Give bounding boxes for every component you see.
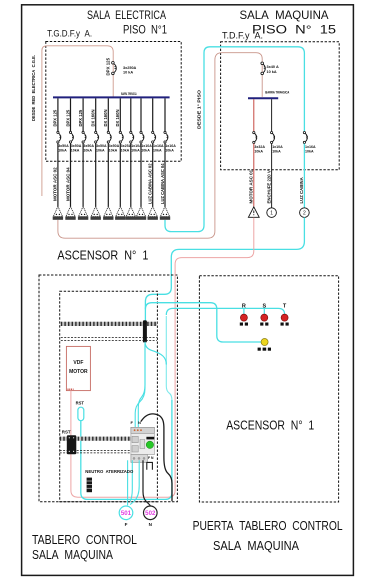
VDF MOTOR drive box — [66, 346, 90, 390]
svg-text:10 kA: 10 kA — [123, 70, 133, 74]
svg-text:MOTOR ASC 01: MOTOR ASC 01 — [249, 169, 254, 203]
svg-text:VDF: VDF — [73, 360, 83, 366]
breaker 3x25A feeder 6 — [119, 131, 121, 133]
svg-text:T.G.D.F.y A.: T.G.D.F.y A. — [47, 28, 92, 38]
svg-text:PISO N°1: PISO N°1 — [123, 22, 167, 36]
svg-text:10kA: 10kA — [153, 148, 162, 152]
wire feeder 5 down — [107, 143, 109, 206]
svg-text:PISO N° 15: PISO N° 15 — [252, 22, 336, 36]
disconnect switch on rail — [143, 320, 147, 342]
wire feeder 3 down — [82, 143, 84, 206]
wire to 501 (cyan) — [127, 460, 129, 505]
RST contactor block — [67, 435, 77, 454]
svg-text:3x50A: 3x50A — [96, 144, 107, 148]
svg-text:10kA: 10kA — [96, 148, 105, 152]
svg-text:501: 501 — [121, 511, 132, 517]
breaker 3x50A feeder 5 — [107, 131, 109, 133]
svg-text:ENCHUFE 220 V: ENCHUFE 220 V — [266, 170, 271, 203]
svg-text:LUZ CABINA: LUZ CABINA — [299, 177, 304, 203]
svg-text:F: F — [125, 522, 128, 527]
RST sensor pill (cyan) — [78, 407, 84, 421]
wire switch to contactor N (cyan) — [135, 344, 145, 428]
rail bus (bottom) — [60, 437, 131, 441]
svg-text:SALA MAQUINA: SALA MAQUINA — [240, 8, 329, 22]
svg-text:3x50A: 3x50A — [71, 144, 82, 148]
svg-text:DX 160N: DX 160N — [91, 110, 96, 127]
puerta tablero box (dashed) — [199, 276, 338, 502]
contactor black bar — [146, 437, 154, 440]
ground cable symbol feeder 7 — [126, 206, 135, 216]
svg-text:3x50A: 3x50A — [109, 144, 120, 148]
wire feeder 2 down — [70, 143, 72, 206]
svg-text:T: T — [283, 304, 287, 310]
tablero control outer box (dashed) — [39, 275, 177, 502]
svg-text:10kA: 10kA — [254, 149, 263, 153]
svg-text:F N: F N — [148, 456, 154, 460]
svg-text:S: S — [262, 304, 266, 310]
wire to 502 (black) — [143, 460, 150, 506]
ground cable symbol feeder 9 — [148, 206, 157, 216]
neutro ground bar — [87, 478, 92, 493]
feeder line 2 — [70, 98, 72, 131]
wire feeder 8 down — [140, 143, 142, 206]
feeder line 8 — [140, 98, 142, 131]
svg-text:1: 1 — [270, 211, 273, 217]
wire feeder 10 down — [164, 143, 166, 206]
svg-text:TABLERO CONTROL: TABLERO CONTROL — [32, 532, 137, 547]
wire pill to rail strip (cyan) — [81, 400, 172, 499]
svg-text:10kA: 10kA — [165, 148, 174, 152]
svg-text:LUZ CABINA ASC 02: LUZ CABINA ASC 02 — [148, 163, 153, 204]
svg-text:1x16A: 1x16A — [305, 145, 316, 149]
breaker 3x50A feeder 3 — [82, 131, 84, 133]
breaker 1x16A feeder 9 — [152, 131, 154, 133]
svg-text:BARRA TRIFASICA: BARRA TRIFASICA — [121, 92, 137, 96]
outlet circle 1 — [267, 208, 277, 218]
terminal rail bus (top) — [61, 322, 157, 326]
breaker 1x10A feeder 8 — [140, 131, 142, 133]
pilot lamp yellow — [261, 339, 268, 346]
svg-text:RST: RST — [76, 400, 85, 405]
wire luz cabina (cyan) part3 down to tablero — [145, 217, 304, 320]
breaker 1x10A enchufe — [271, 132, 273, 134]
ground cable symbol feeder 1 — [53, 206, 62, 216]
breaker 3x32A motor — [253, 132, 255, 134]
wire feeder 1 down — [57, 143, 59, 206]
contactor bottom terminals — [131, 454, 147, 462]
ground cable symbol feeder 8 — [136, 206, 145, 216]
breaker 3x50A feeder 2 — [69, 131, 71, 133]
svg-text:MOTOR ASC 04: MOTOR ASC 04 — [65, 167, 70, 201]
svg-text:1x16A: 1x16A — [165, 144, 176, 148]
svg-text:10kA: 10kA — [121, 148, 130, 152]
ground cable symbol feeder 5 — [104, 206, 113, 216]
svg-text:N: N — [149, 522, 153, 527]
svg-text:SALA ELECTRICA: SALA ELECTRICA — [87, 8, 166, 22]
green run button — [146, 441, 153, 448]
delta symbol motor — [248, 207, 259, 218]
wire feeder 4 down — [95, 143, 97, 206]
svg-text:DX 160N: DX 160N — [115, 109, 120, 126]
svg-text:T.D.F.y A.: T.D.F.y A. — [222, 30, 263, 40]
feeder line 10 — [164, 98, 166, 131]
double dashed rail (bottom) — [60, 449, 131, 451]
wire luz cabina feed (cyan) part1 — [165, 47, 304, 232]
wire motor feed floor1 to floor15 (salmon) — [58, 53, 262, 239]
wire luz cabina (cyan) part2 — [303, 144, 305, 208]
svg-text:3x32A: 3x32A — [254, 145, 265, 149]
bus bar BARRA TRIFASICA (left) — [53, 96, 170, 98]
svg-text:SALA MAQUINA: SALA MAQUINA — [32, 547, 113, 562]
svg-text:2: 2 — [303, 211, 306, 217]
main breaker DPX 125 3x250A — [112, 62, 115, 65]
wire lamps feed (light cyan) — [166, 316, 172, 400]
svg-text:3x50A: 3x50A — [83, 144, 94, 148]
svg-text:F: F — [130, 420, 133, 425]
wire feeder 7 down — [130, 143, 132, 206]
luz circle 2 — [300, 208, 310, 218]
svg-text:PUERTA TABLERO CONTROL: PUERTA TABLERO CONTROL — [193, 518, 343, 533]
feeder line 1 — [57, 98, 59, 131]
svg-text:ASCENSOR N° 1: ASCENSOR N° 1 — [57, 249, 148, 263]
ground cable symbol feeder 4 — [91, 206, 100, 216]
wire feeder 9 down — [152, 143, 154, 206]
svg-text:10kA: 10kA — [71, 148, 80, 152]
svg-text:ASCENSOR N° 1: ASCENSOR N° 1 — [226, 419, 314, 433]
svg-text:10kA: 10kA — [141, 148, 150, 152]
feeder line 3 — [82, 98, 84, 131]
node 502 — [144, 506, 158, 520]
svg-text:DPX 125: DPX 125 — [53, 109, 58, 126]
svg-text:502: 502 — [145, 511, 156, 517]
wire yellow lamp feed (cyan) — [145, 303, 261, 342]
feeder line 5 — [107, 98, 109, 131]
svg-text:DESDE RED ELECTRICA C.G.E.: DESDE RED ELECTRICA C.G.E. — [31, 55, 37, 121]
ground cable symbol feeder 6 — [116, 206, 125, 216]
svg-text:DX 160N: DX 160N — [103, 110, 108, 127]
svg-text:3x250A: 3x250A — [123, 66, 137, 70]
feeder line 9 — [152, 98, 154, 131]
svg-text:10kA: 10kA — [58, 148, 67, 152]
svg-text:BARRA TRIFASICA: BARRA TRIFASICA — [265, 90, 289, 94]
feeder line 6 — [119, 98, 121, 131]
wire switch to strip (cyan) — [145, 342, 166, 365]
breaker 3x50A feeder 4 — [95, 131, 97, 133]
wire incoming feed from street (salmon) — [42, 46, 113, 196]
svg-text:10kA: 10kA — [272, 149, 281, 153]
double dashed rail (top) — [61, 337, 157, 339]
breaker 1x16A feeder 10 — [164, 131, 166, 133]
svg-text:10kA: 10kA — [305, 149, 314, 153]
svg-text:SALA MAQUINA: SALA MAQUINA — [213, 538, 299, 553]
wire feeder 6 down — [119, 143, 121, 206]
svg-text:DPX 125: DPX 125 — [105, 57, 110, 75]
svg-text:10kA: 10kA — [109, 148, 118, 152]
ground cable symbol feeder 3 — [79, 206, 88, 216]
wire enchufe branch — [271, 99, 273, 131]
wire neutral loop (black) — [141, 414, 172, 501]
terminal clamp — [147, 462, 153, 469]
svg-text:RST: RST — [62, 429, 71, 434]
svg-text:DESDE 1° PISO: DESDE 1° PISO — [197, 90, 203, 129]
node 501 — [119, 506, 133, 520]
svg-text:R: R — [242, 304, 246, 310]
svg-text:NEUTRO ATERRIZADO: NEUTRO ATERRIZADO — [85, 469, 133, 474]
wire motor branch (red) — [253, 99, 255, 131]
wire RST lamps horizontal (cyan) — [166, 308, 284, 315]
main breaker TDF 3x40A — [261, 62, 264, 65]
svg-text:LUZ CABINA ASC 04: LUZ CABINA ASC 04 — [160, 163, 165, 204]
svg-text:3x50A: 3x50A — [58, 144, 69, 148]
feeder line 4 — [95, 98, 97, 131]
breaker 1x16A luz — [303, 132, 305, 134]
svg-text:3x40 A: 3x40 A — [267, 65, 280, 69]
feeder line 7 — [130, 98, 132, 131]
svg-text:MOTOR ASC 02: MOTOR ASC 02 — [53, 167, 58, 201]
svg-text:1x16A: 1x16A — [153, 144, 164, 148]
wire switch to contactor F (cyan) — [138, 344, 145, 428]
breaker 3x50A feeder 1 — [57, 131, 59, 133]
ground cable symbol feeder 2 — [66, 206, 75, 216]
main contactor body — [131, 427, 154, 454]
tablero control inner box (dashed) — [60, 291, 158, 502]
svg-text:1x10A: 1x10A — [141, 144, 152, 148]
panel box T.G.D.F. (dashed) — [46, 42, 181, 162]
wire motor circuit route (pale red) — [71, 218, 254, 498]
svg-text:10kA: 10kA — [83, 148, 92, 152]
panel box T.D.F. (dashed) — [221, 42, 340, 170]
svg-text:1x10A: 1x10A — [272, 145, 283, 149]
svg-text:DPX 125: DPX 125 — [78, 109, 83, 126]
svg-text:10kA: 10kA — [131, 148, 140, 152]
ground cable symbol feeder 10 — [160, 206, 169, 216]
svg-text:DPX 125: DPX 125 — [65, 109, 70, 126]
svg-text:10 kA: 10 kA — [267, 70, 277, 74]
svg-text:3x25A: 3x25A — [121, 144, 132, 148]
breaker 1x10A feeder 7 — [130, 131, 132, 133]
bus bar BARRA TRIFASICA (right) — [248, 97, 278, 99]
svg-text:MOTOR: MOTOR — [69, 369, 88, 375]
